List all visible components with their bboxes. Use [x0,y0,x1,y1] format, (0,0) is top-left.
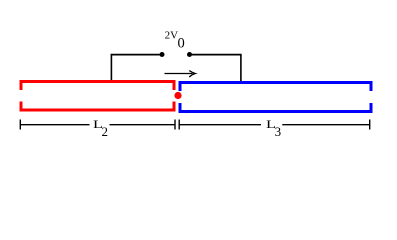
svg-text:0: 0 [178,36,185,52]
dimension line L2 (left segment) [20,124,89,126]
terminal dot (left, +) [160,52,165,57]
svg-text:3: 3 [275,124,282,139]
terminal dot (right, -) [187,52,192,57]
svg-text:2V: 2V [165,30,179,42]
dimension line L2 (right segment) [110,124,176,126]
wire: top horizontal left segment to left terminal [111,54,162,56]
resistor bar L2 (red rod, open ends) [21,82,174,111]
wire: top horizontal right segment from right terminal [190,54,242,56]
dimension line L3 (right tick) [369,120,371,130]
svg-text:2: 2 [102,124,109,139]
junction node (red dot between bars) [174,92,181,99]
label L3 [266,117,281,139]
resistor bar L3 (blue rod, open ends) [180,83,371,112]
dimension line L3 (left segment) [179,124,261,126]
dimension line L3 (left tick) [178,120,180,130]
label 2V0 (source voltage) [165,30,185,52]
label L2 [93,117,108,139]
current arrow (direction of I) [165,71,196,77]
wire: right vertical down to blue bar [240,55,242,83]
wire: left vertical from source down to red bar [110,55,112,82]
dimension line L2 (left tick) [19,120,21,130]
dimension line L3 (right segment) [282,124,369,126]
dimension line L2 (right tick) [174,120,176,130]
